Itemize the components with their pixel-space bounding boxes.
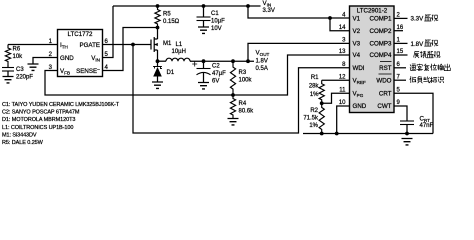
svg-text:28k: 28k xyxy=(309,84,320,90)
svg-text:0.15Ω: 0.15Ω xyxy=(163,19,180,25)
op-amp U1 LTC1772 controller box xyxy=(58,30,103,77)
svg-text:WDI: WDI xyxy=(353,65,365,72)
resistor R4 xyxy=(230,95,235,119)
svg-text:12: 12 xyxy=(339,74,346,80)
diode D1 schottky xyxy=(157,61,159,67)
node GND tie xyxy=(335,132,339,136)
svg-text:R4: R4 xyxy=(239,101,247,107)
transistor M1 PMOS xyxy=(150,40,152,50)
node R5 bottom / M1 source xyxy=(156,26,160,30)
svg-text:3.3V: 3.3V xyxy=(411,16,425,23)
ground below R4 xyxy=(228,119,239,125)
svg-text:SENSE−: SENSE− xyxy=(76,67,100,75)
svg-text:71.5k: 71.5k xyxy=(303,116,319,122)
ground at pin2 xyxy=(28,64,39,70)
svg-text:M1: Si3443DV: M1: Si3443DV xyxy=(2,132,37,138)
svg-text:47µF: 47µF xyxy=(212,71,226,77)
resistor R5 xyxy=(155,6,160,28)
capacitor C2 polarized xyxy=(202,59,206,63)
node cap/ground junction xyxy=(405,132,409,136)
svg-text:6V: 6V xyxy=(212,79,219,85)
svg-text:R5: R5 xyxy=(163,12,171,18)
wire top VIN rail xyxy=(113,5,261,7)
svg-text:1.8V: 1.8V xyxy=(411,41,425,48)
svg-text:1%: 1% xyxy=(310,92,319,98)
svg-text:7: 7 xyxy=(397,74,401,80)
wire COMP1 output xyxy=(394,17,408,19)
wire COMP2 stub xyxy=(394,30,403,32)
wire COMP3 output xyxy=(394,42,408,44)
svg-text:47nF: 47nF xyxy=(420,123,434,129)
svg-text:R6: R6 xyxy=(13,47,21,53)
svg-text:LTC2901-2: LTC2901-2 xyxy=(357,7,388,14)
svg-text:WDO: WDO xyxy=(376,77,391,84)
svg-text:C2: C2 xyxy=(212,64,220,70)
svg-text:6: 6 xyxy=(397,62,401,68)
label watchdog low flag xyxy=(410,76,416,82)
svg-text:8: 8 xyxy=(342,62,346,68)
overline WDO xyxy=(379,73,392,75)
node R2 bottom xyxy=(320,132,324,136)
node V1/V2 tie xyxy=(328,16,332,20)
svg-text:R3: R3 xyxy=(239,70,247,76)
svg-text:14: 14 xyxy=(339,25,346,31)
wire ground bus xyxy=(303,133,433,135)
svg-text:CWT: CWT xyxy=(377,103,391,110)
ground below D1 xyxy=(152,82,163,88)
svg-text:3: 3 xyxy=(342,38,346,44)
node switch / drain junction xyxy=(156,59,160,63)
node VIN tap xyxy=(246,4,250,8)
svg-text:10µH: 10µH xyxy=(172,49,186,55)
svg-text:3.3V: 3.3V xyxy=(263,8,275,14)
svg-text:COMP1: COMP1 xyxy=(369,16,392,23)
svg-text:15: 15 xyxy=(397,49,404,55)
svg-text:2: 2 xyxy=(397,13,401,19)
svg-text:COMP3: COMP3 xyxy=(369,41,392,48)
wire feedback node to V4 xyxy=(233,55,350,95)
node VOUT tap xyxy=(246,59,250,63)
capacitor CRT 47nF xyxy=(400,120,414,122)
wire VFB pin3 feedback line to divider xyxy=(45,71,233,96)
node R1/R2 junction xyxy=(320,101,324,105)
wire GND pin10 riser xyxy=(337,106,350,134)
node feedback divider junction xyxy=(231,93,235,97)
wire VIN pin5 riser to top rail xyxy=(103,6,114,58)
svg-text:V3: V3 xyxy=(353,41,361,48)
svg-text:100k: 100k xyxy=(239,78,253,84)
svg-text:220pF: 220pF xyxy=(16,75,33,81)
wire VPG to divider xyxy=(322,93,350,103)
overline RST xyxy=(380,61,392,63)
svg-text:1%: 1% xyxy=(309,123,318,129)
svg-text:C3: C3 xyxy=(16,67,24,73)
svg-text:V1: V1 xyxy=(353,16,361,23)
svg-text:80.6k: 80.6k xyxy=(239,109,255,115)
wire ITH pin1 to R6 xyxy=(8,44,58,46)
resistor R3 xyxy=(231,59,235,63)
ground below C2 xyxy=(198,83,209,89)
svg-text:11: 11 xyxy=(339,88,346,94)
resistor R1 xyxy=(322,79,350,81)
svg-text:9: 9 xyxy=(397,100,401,106)
svg-text:R1: R1 xyxy=(311,75,319,81)
svg-text:10V: 10V xyxy=(211,26,222,32)
ground below C3 xyxy=(3,77,14,83)
label normal reset output xyxy=(410,64,416,71)
capacitor C3 xyxy=(7,65,9,68)
node C1 top xyxy=(202,4,206,8)
svg-text:13: 13 xyxy=(339,49,346,55)
svg-text:C1: TAIYO YUDEN CERAMIC LMK325: C1: TAIYO YUDEN CERAMIC LMK325BJ106K-T xyxy=(2,102,120,108)
wire WDO output xyxy=(394,79,406,81)
svg-text:VOUT: VOUT xyxy=(256,50,270,58)
label feedback monitor xyxy=(414,51,419,58)
svg-text:VIN: VIN xyxy=(263,0,272,8)
wire PGATE to WDI xyxy=(133,45,350,134)
svg-text:16: 16 xyxy=(397,25,404,31)
svg-text:GND: GND xyxy=(353,103,367,110)
wire VOUT to V3 xyxy=(248,43,350,61)
svg-text:M1: M1 xyxy=(163,41,172,47)
svg-text:C1: C1 xyxy=(211,11,219,17)
wire VIN to V1/V2 xyxy=(248,6,350,18)
ground below C1 xyxy=(198,27,209,33)
ground below CRT cap xyxy=(402,139,413,145)
svg-text:L1: L1 xyxy=(176,42,183,48)
svg-text:0.5A: 0.5A xyxy=(256,66,268,72)
resistor R6 xyxy=(5,45,10,65)
svg-text:R5: DALE 0.25W: R5: DALE 0.25W xyxy=(2,140,44,146)
op-amp U2 LTC2901-2 supervisor box xyxy=(350,6,395,113)
svg-text:1.8V: 1.8V xyxy=(256,59,268,65)
inductor L1 xyxy=(158,60,167,62)
wire CRT riser xyxy=(394,93,433,133)
node R5 top xyxy=(156,4,160,8)
svg-text:GND: GND xyxy=(60,55,74,62)
wire VOUT line xyxy=(190,60,254,62)
svg-text:COMP4: COMP4 xyxy=(369,52,392,59)
svg-text:RST: RST xyxy=(379,65,392,72)
svg-text:D1: D1 xyxy=(167,70,175,76)
svg-text:1: 1 xyxy=(397,38,401,44)
wire SENSE- pin4 loop to R5 bottom xyxy=(103,28,158,71)
wire RST output xyxy=(394,67,406,69)
svg-text:10: 10 xyxy=(339,100,346,106)
svg-text:LTC1772: LTC1772 xyxy=(68,31,94,38)
svg-text:R2: R2 xyxy=(310,108,318,114)
wire COMP4 output xyxy=(394,54,408,56)
svg-text:COMP2: COMP2 xyxy=(369,28,392,35)
wire GND pin2 xyxy=(33,58,58,65)
node PGATE junction xyxy=(131,43,135,47)
svg-text:10µF: 10µF xyxy=(211,19,225,25)
wire PGATE pin6 to M1 gate xyxy=(103,44,152,46)
wire CWT to CRT cap xyxy=(394,106,407,121)
svg-text:V2: V2 xyxy=(353,28,361,35)
resistor R2 xyxy=(319,103,324,133)
svg-text:D1: MOTOROLA MBRM120T3: D1: MOTOROLA MBRM120T3 xyxy=(2,117,75,123)
svg-text:C2: SANYO POSCAP 6TPA47M: C2: SANYO POSCAP 6TPA47M xyxy=(2,110,80,116)
svg-text:10k: 10k xyxy=(13,54,24,60)
svg-text:L1: COILTRONICS UP1B-100: L1: COILTRONICS UP1B-100 xyxy=(2,125,73,131)
svg-text:5: 5 xyxy=(397,88,401,94)
svg-text:V4: V4 xyxy=(353,52,361,59)
capacitor C1 xyxy=(203,6,205,17)
svg-text:CRT: CRT xyxy=(379,91,392,98)
svg-text:PGATE: PGATE xyxy=(79,42,100,49)
